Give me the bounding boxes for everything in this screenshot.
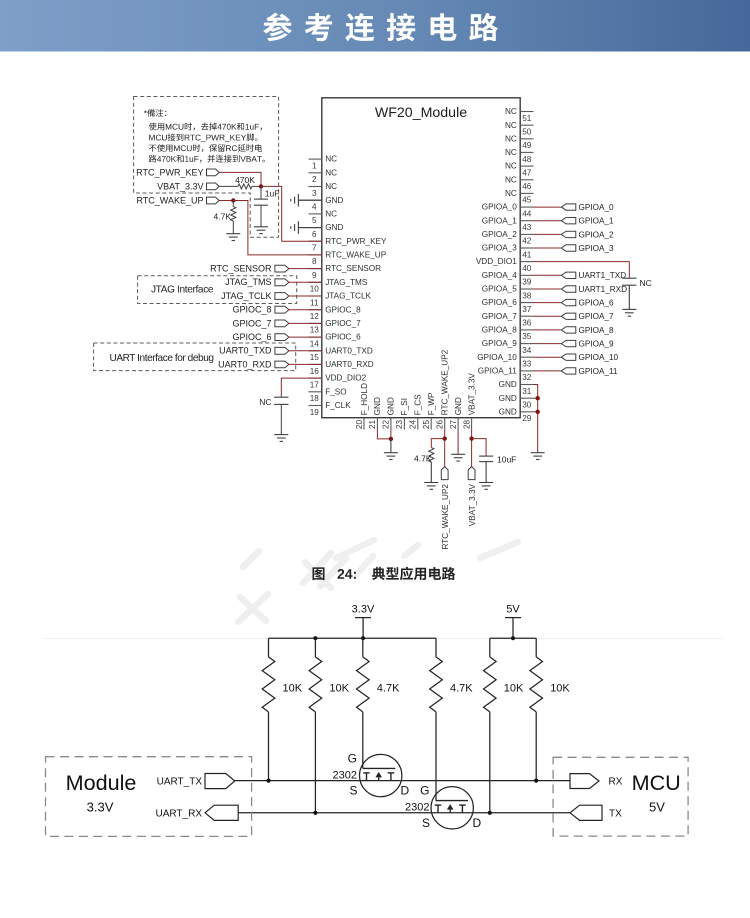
- svg-text:UART0_TXD: UART0_TXD: [325, 346, 373, 355]
- svg-text:GPIOA_2: GPIOA_2: [579, 230, 614, 239]
- pin 21 GND: [368, 397, 382, 429]
- svg-text:15: 15: [310, 353, 320, 362]
- wire 5V rail: [490, 637, 536, 639]
- node TX/R1: [266, 779, 270, 783]
- svg-text:38: 38: [522, 291, 532, 300]
- svg-text:GPIOC_6: GPIOC_6: [325, 333, 361, 342]
- faint horizontal rule: [44, 638, 723, 640]
- svg-text:NC: NC: [325, 168, 337, 177]
- resistor R4 4.7K: [430, 638, 474, 712]
- wire RTC_SENSOR to pin 9: [289, 268, 322, 270]
- svg-text:GPIOA_3: GPIOA_3: [579, 244, 614, 253]
- svg-text:UART0_RXD: UART0_RXD: [218, 359, 272, 369]
- svg-text:14: 14: [310, 339, 320, 348]
- pin 17 VDD_DIO2: [309, 374, 367, 390]
- svg-text:20: 20: [355, 420, 364, 430]
- pin 28 VBAT_3.3V: [462, 373, 476, 430]
- ground (4.7K): [226, 233, 240, 235]
- svg-text:29: 29: [522, 414, 532, 423]
- svg-text:4.7K: 4.7K: [414, 453, 432, 463]
- pin 18 F_SO: [309, 387, 347, 403]
- svg-text:GPIOA_5: GPIOA_5: [482, 285, 517, 294]
- svg-text:UART1_RXD: UART1_RXD: [579, 285, 628, 294]
- wire pin 27 GND: [457, 430, 459, 455]
- svg-text:GPIOA_1: GPIOA_1: [579, 217, 614, 226]
- ground (pin 27): [451, 453, 465, 455]
- svg-text:51: 51: [522, 114, 532, 123]
- wire UART_RX net (MCU TX to Module RX): [238, 812, 570, 814]
- svg-text:10uF: 10uF: [497, 454, 516, 464]
- svg-text:UART_RX: UART_RX: [156, 809, 203, 820]
- svg-text:25: 25: [422, 420, 431, 430]
- svg-text:GPIOA_9: GPIOA_9: [579, 339, 614, 348]
- svg-text:UART1_TXD: UART1_TXD: [579, 271, 627, 280]
- svg-text:F_SI: F_SI: [400, 398, 409, 415]
- pin 12 GPIOC_8: [309, 305, 362, 321]
- pin 4 GND: [298, 196, 343, 212]
- port RTC_WAKE_UP2 (down): [441, 467, 448, 480]
- pin 33 GPIOA_10: [477, 353, 533, 369]
- svg-text:G: G: [420, 784, 429, 798]
- Module box: [46, 757, 252, 837]
- svg-text:6: 6: [312, 230, 317, 239]
- pin 48 NC: [505, 148, 534, 164]
- svg-text:GPIOA_7: GPIOA_7: [579, 312, 614, 321]
- pin 13 GPIOC_7: [309, 319, 362, 335]
- resistor R2 10K: [309, 638, 350, 712]
- ground (1uF): [254, 226, 268, 228]
- svg-text:GPIOC_8: GPIOC_8: [325, 305, 361, 314]
- svg-text:F_HOLD: F_HOLD: [360, 383, 369, 415]
- pin 7 RTC_PWR_KEY: [309, 237, 388, 253]
- pin 36 GPIOA_7: [482, 312, 534, 328]
- svg-text:GPIOA_10: GPIOA_10: [579, 353, 619, 362]
- wire R5 lead down: [489, 712, 491, 813]
- svg-text:27: 27: [449, 420, 458, 430]
- ground (GND bus): [531, 452, 545, 454]
- svg-text:17: 17: [310, 380, 320, 389]
- pin 31 GND: [499, 380, 534, 396]
- port GPIOC_7: [232, 318, 288, 328]
- svg-text:10K: 10K: [283, 683, 303, 695]
- svg-text:10K: 10K: [329, 683, 349, 695]
- wire pin 21 GND: [377, 430, 391, 439]
- svg-text:GPIOA_8: GPIOA_8: [482, 326, 517, 335]
- svg-text:37: 37: [522, 305, 532, 314]
- wire UART_TX net (Module TX to MCU RX): [235, 780, 570, 782]
- port GPIOA_10: [561, 353, 618, 362]
- pin 14 GPIOC_6: [309, 333, 362, 349]
- svg-text:1uF: 1uF: [265, 189, 280, 199]
- svg-text:D: D: [473, 816, 482, 830]
- pin 19 F_CLK: [309, 401, 352, 417]
- wire R2 lead down: [314, 712, 316, 813]
- svg-text:44: 44: [522, 209, 532, 218]
- capacitor NC (VDD_DIO2): [274, 396, 288, 398]
- svg-text:3: 3: [312, 189, 317, 198]
- wire GPIOC_8 to pin 12: [289, 309, 322, 311]
- svg-text:GPIOA_9: GPIOA_9: [482, 339, 517, 348]
- svg-text:F_SO: F_SO: [325, 387, 346, 396]
- svg-text:32: 32: [522, 373, 532, 382]
- svg-text:GPIOA_10: GPIOA_10: [477, 353, 517, 362]
- capacitor 10uF: [479, 455, 493, 457]
- pin 6 GND: [298, 223, 343, 239]
- svg-text:GND: GND: [325, 223, 343, 232]
- header title 参考连接电路: [263, 13, 498, 42]
- wire GPIOC_7 to pin 13: [289, 322, 322, 324]
- svg-text:JTAG Interface: JTAG Interface: [151, 284, 214, 295]
- node RTC_WAKE_UP junction: [231, 198, 235, 202]
- svg-text:GPIOA_1: GPIOA_1: [482, 216, 517, 225]
- wire pin 38 to port: [534, 288, 562, 290]
- svg-text:VDD_DIO1: VDD_DIO1: [476, 257, 517, 266]
- svg-text:GPIOC_6: GPIOC_6: [232, 332, 271, 342]
- port GPIOA_7: [561, 312, 614, 321]
- wire R470K to node: [252, 185, 261, 187]
- pin 29 GND: [499, 407, 534, 423]
- svg-text:UART_TX: UART_TX: [157, 776, 203, 787]
- wire R3 lead down: [362, 712, 364, 769]
- port UART1_TXD: [561, 271, 626, 280]
- port GPIOA_9: [561, 339, 614, 348]
- pin 15 UART0_TXD: [309, 346, 373, 362]
- svg-text:RTC_SENSOR: RTC_SENSOR: [325, 264, 381, 273]
- wire pin 26 RTC_WAKE_UP2: [444, 430, 446, 467]
- node RX/R2: [313, 811, 317, 815]
- svg-text:GPIOA_6: GPIOA_6: [579, 299, 614, 308]
- svg-text:GND: GND: [454, 397, 463, 415]
- svg-text:36: 36: [522, 319, 532, 328]
- ground (10uF): [479, 482, 493, 484]
- svg-text:NC: NC: [325, 155, 337, 164]
- port GPIOC_6: [232, 332, 288, 342]
- wire R4 lead down: [435, 712, 437, 801]
- svg-text:F_CS: F_CS: [414, 394, 423, 415]
- pin 11 JTAG_TCLK: [309, 292, 372, 308]
- watermark (decorative): [238, 540, 518, 622]
- wire pin 41 to port: [534, 247, 562, 249]
- port VBAT_3.3V (down): [468, 467, 475, 480]
- svg-text:GND: GND: [387, 397, 396, 415]
- svg-text:5V: 5V: [506, 604, 520, 616]
- svg-text:2: 2: [312, 175, 317, 184]
- wire to resistor 4.7K: [431, 439, 444, 448]
- svg-text:21: 21: [368, 420, 377, 430]
- svg-text:UART0_TXD: UART0_TXD: [219, 346, 272, 356]
- svg-text:GPIOC_7: GPIOC_7: [232, 318, 271, 328]
- svg-text:10K: 10K: [550, 683, 570, 695]
- port GPIOA_3: [561, 244, 614, 253]
- note dashed box: [134, 97, 279, 238]
- ground (4.7K pin26): [424, 482, 438, 484]
- module U1 WF20_Module: [322, 98, 520, 418]
- resistor R6 10K: [530, 638, 571, 712]
- svg-text:2302: 2302: [333, 770, 357, 782]
- svg-text:NC: NC: [259, 397, 271, 407]
- node pin28 junction: [469, 436, 473, 440]
- svg-text:43: 43: [522, 223, 532, 232]
- resistor 4.7K (wakeup pulldown): [232, 201, 234, 207]
- pin 5 NC: [309, 210, 338, 226]
- wire R6 lead down: [535, 712, 537, 781]
- wire RTC_PWR_KEY to node: [219, 172, 261, 186]
- wire pin 44 to port: [534, 206, 562, 208]
- wire UART0_TXD to pin 15: [289, 350, 322, 352]
- port RX: [570, 774, 599, 789]
- wire VDD_DIO2 (pin 17): [281, 378, 322, 397]
- pin 45 NC: [505, 189, 534, 205]
- wire pin 34 to port: [534, 343, 562, 345]
- svg-text:GPIOA_0: GPIOA_0: [482, 203, 517, 212]
- svg-text:34: 34: [522, 346, 532, 355]
- svg-text:NC: NC: [505, 162, 517, 171]
- svg-text:42: 42: [522, 237, 532, 246]
- svg-text:GPIOA_3: GPIOA_3: [482, 244, 517, 253]
- svg-text:470K: 470K: [235, 175, 255, 185]
- pin 44 GPIOA_0: [482, 203, 534, 219]
- pin 39 GPIOA_4: [482, 271, 534, 287]
- svg-text:JTAG_TCLK: JTAG_TCLK: [221, 291, 271, 301]
- pin 46 NC: [505, 175, 534, 191]
- pin 8 RTC_WAKE_UP: [309, 251, 387, 267]
- node TX/R6: [534, 779, 538, 783]
- transistor Q2 2302: [431, 787, 473, 829]
- resistor R3 4.7K: [357, 638, 401, 712]
- port GPIOA_11: [561, 367, 618, 376]
- svg-text:RTC_WAKE_UP: RTC_WAKE_UP: [325, 251, 387, 260]
- header banner: [0, 0, 750, 52]
- svg-text:GPIOA_0: GPIOA_0: [579, 203, 614, 212]
- svg-text:RTC_PWR_KEY: RTC_PWR_KEY: [325, 237, 387, 246]
- svg-text:RTC_WAKE_UP: RTC_WAKE_UP: [136, 196, 203, 206]
- svg-text:VBAT_3.3V: VBAT_3.3V: [157, 182, 203, 192]
- svg-text:JTAG_TCLK: JTAG_TCLK: [325, 292, 371, 301]
- MCU box: [553, 757, 688, 836]
- wire pin 33 to port: [534, 356, 562, 358]
- pin 43 GPIOA_1: [482, 216, 534, 232]
- svg-text:F_CLK: F_CLK: [325, 401, 351, 410]
- svg-text:49: 49: [522, 141, 532, 150]
- svg-text:GPIOA_8: GPIOA_8: [579, 326, 614, 335]
- node pin26 junction: [443, 436, 447, 440]
- pin 32 GPIOA_11: [478, 367, 534, 383]
- svg-text:VBAT_3.3V: VBAT_3.3V: [467, 373, 476, 416]
- svg-text:GPIOA_11: GPIOA_11: [579, 367, 618, 376]
- wire GPIOC_6 to pin 14: [289, 336, 322, 338]
- svg-text:NC: NC: [640, 278, 652, 288]
- svg-text:10: 10: [310, 285, 320, 294]
- svg-text:VDD_DIO2: VDD_DIO2: [325, 374, 366, 383]
- svg-text:GPIOA_4: GPIOA_4: [482, 271, 517, 280]
- pin 27 GND: [449, 397, 463, 429]
- resistor 470K: [238, 184, 252, 189]
- capacitor 1uF: [260, 186, 262, 199]
- pin 26 RTC_WAKE_UP2: [436, 349, 450, 429]
- svg-text:VBAT_3.3V: VBAT_3.3V: [468, 483, 477, 526]
- ground (pins 21/22): [384, 452, 398, 454]
- svg-text:NC: NC: [505, 148, 517, 157]
- svg-text:4.7K: 4.7K: [214, 212, 232, 222]
- svg-text:NC: NC: [505, 107, 517, 116]
- svg-text:41: 41: [522, 250, 532, 259]
- svg-text:1: 1: [312, 161, 317, 170]
- svg-text:45: 45: [522, 196, 532, 205]
- svg-text:2302: 2302: [405, 802, 429, 814]
- caption 图 24: 典型应用电路: [313, 567, 325, 580]
- pin 22 GND: [382, 397, 396, 429]
- node rail/3.3V: [361, 636, 365, 640]
- svg-text:31: 31: [522, 387, 532, 396]
- pin 51 NC: [505, 107, 534, 123]
- svg-text:28: 28: [462, 420, 471, 430]
- svg-text:3.3V: 3.3V: [87, 800, 114, 815]
- node GND junction (21/22): [389, 437, 393, 441]
- svg-text:50: 50: [522, 128, 532, 137]
- port JTAG_TMS: [225, 277, 289, 287]
- pin 30 GND: [499, 394, 534, 410]
- svg-text:MCU: MCU: [632, 770, 681, 795]
- svg-text:GPIOC_7: GPIOC_7: [325, 319, 361, 328]
- svg-text:GPIOA_11: GPIOA_11: [478, 367, 517, 376]
- wire pin 39 to port: [534, 274, 562, 276]
- port GPIOA_6: [561, 299, 614, 308]
- node RTC_PWR_KEY/RC junction: [259, 184, 263, 188]
- capacitor NC (VDD_DIO1): [622, 277, 636, 279]
- svg-text:35: 35: [522, 332, 532, 341]
- pin 34 GPIOA_9: [482, 339, 534, 355]
- svg-text:22: 22: [382, 420, 391, 430]
- wire pin 22 GND: [390, 430, 392, 439]
- wire node to pin 8: [233, 201, 321, 255]
- resistor R1 10K: [262, 638, 303, 712]
- pin 35 GPIOA_8: [482, 326, 534, 342]
- port TX: [570, 805, 602, 820]
- svg-text:8: 8: [312, 257, 317, 266]
- ground (pin 6, rotated): [298, 227, 321, 229]
- svg-text:16: 16: [310, 367, 320, 376]
- svg-text:JTAG_TMS: JTAG_TMS: [225, 277, 271, 287]
- port GPIOC_8: [232, 305, 288, 315]
- wire pin 42 to port: [534, 233, 562, 235]
- wire JTAG_TMS to pin 10: [289, 281, 322, 283]
- svg-text:NC: NC: [505, 134, 517, 143]
- port JTAG_TCLK: [221, 291, 289, 301]
- svg-text:30: 30: [522, 401, 532, 410]
- port UART1_RXD: [561, 285, 627, 294]
- pin 37 GPIOA_6: [482, 298, 534, 314]
- wire 3.3V rail: [269, 637, 437, 639]
- wire to capacitor 10uF: [472, 439, 487, 457]
- wire R1 lead down: [268, 712, 270, 781]
- wire pin 35 to port: [534, 329, 562, 331]
- UART Interface for debug dashed box: [94, 343, 296, 371]
- wire node to pin 7: [261, 186, 322, 241]
- wire GND bus pins 31/30/29: [534, 385, 538, 453]
- svg-text:24: 24: [409, 420, 418, 430]
- pin 16 UART0_RXD: [309, 360, 374, 376]
- svg-text:GND: GND: [325, 196, 343, 205]
- svg-text:G: G: [348, 752, 357, 766]
- svg-text:4.7K: 4.7K: [377, 683, 400, 695]
- pin 9 RTC_SENSOR: [309, 264, 382, 280]
- svg-text:GPIOC_8: GPIOC_8: [232, 305, 271, 315]
- svg-text:10K: 10K: [504, 683, 524, 695]
- node rail/R2: [313, 636, 317, 640]
- wire RTC_WAKE_UP to node: [219, 200, 233, 202]
- pin 10 JTAG_TMS: [309, 278, 368, 294]
- svg-text:RX: RX: [609, 777, 623, 788]
- port RTC_SENSOR: [210, 264, 289, 274]
- svg-text:40: 40: [522, 264, 532, 273]
- svg-text:3.3V: 3.3V: [352, 604, 375, 616]
- wire VBAT to R470K: [219, 185, 238, 187]
- svg-text:19: 19: [310, 408, 320, 417]
- svg-text:23: 23: [395, 420, 404, 430]
- svg-text:GND: GND: [373, 397, 382, 415]
- svg-text:26: 26: [436, 420, 445, 430]
- pin 25 F_WP: [422, 392, 436, 429]
- svg-text:S: S: [422, 816, 430, 830]
- wire pin 36 to port: [534, 315, 562, 317]
- svg-text:NC: NC: [325, 182, 337, 191]
- svg-text:RTC_SENSOR: RTC_SENSOR: [210, 264, 272, 274]
- node GND bus / pin29: [536, 410, 540, 414]
- wire pin 43 to port: [534, 220, 562, 222]
- pin 20 F_HOLD: [355, 383, 369, 430]
- svg-text:7: 7: [312, 244, 317, 253]
- svg-text:18: 18: [310, 394, 320, 403]
- pin 23 F_SI: [395, 398, 409, 429]
- svg-text:RTC_PWR_KEY: RTC_PWR_KEY: [136, 168, 203, 178]
- pin 3 NC: [309, 182, 338, 198]
- pin 40 VDD_DIO1: [476, 257, 534, 273]
- svg-text:WF20_Module: WF20_Module: [375, 105, 467, 121]
- svg-text:F_WP: F_WP: [427, 392, 436, 415]
- pin 24 F_CS: [409, 394, 423, 430]
- svg-text:UART Interface for debug: UART Interface for debug: [110, 353, 215, 364]
- node GND bus / pin30: [536, 396, 540, 400]
- wire VDD_DIO1 (pin 40): [534, 262, 630, 279]
- wire pin 37 to port: [534, 302, 562, 304]
- svg-text:GPIOA_6: GPIOA_6: [482, 298, 517, 307]
- port GPIOA_1: [561, 217, 614, 226]
- svg-text:4: 4: [312, 203, 317, 212]
- svg-text:UART0_RXD: UART0_RXD: [325, 360, 374, 369]
- pin 42 GPIOA_2: [482, 230, 534, 246]
- svg-text:RTC_WAKE_UP2: RTC_WAKE_UP2: [441, 349, 450, 415]
- port UART0_TXD: [219, 346, 289, 356]
- svg-text:5: 5: [312, 216, 317, 225]
- svg-text:11: 11: [310, 298, 319, 307]
- svg-text:GND: GND: [499, 407, 517, 416]
- svg-text:47: 47: [522, 168, 532, 177]
- note text 備注: [144, 109, 166, 117]
- node RX/R5: [488, 811, 492, 815]
- svg-text:46: 46: [522, 182, 532, 191]
- svg-text:13: 13: [310, 326, 320, 335]
- port GPIOA_2: [561, 230, 614, 239]
- wire pin 28 VBAT_3.3V: [471, 430, 473, 467]
- svg-text:GND: GND: [499, 394, 517, 403]
- wire JTAG_TCLK to pin 11: [289, 295, 322, 297]
- ground (VDD_DIO1 cap): [622, 308, 636, 310]
- resistor 4.7K (pin26 pulldown): [429, 448, 434, 463]
- svg-text:39: 39: [522, 278, 532, 287]
- JTAG Interface dashed box: [138, 276, 297, 304]
- pin 2 NC: [309, 168, 338, 184]
- pin 49 NC: [505, 134, 534, 150]
